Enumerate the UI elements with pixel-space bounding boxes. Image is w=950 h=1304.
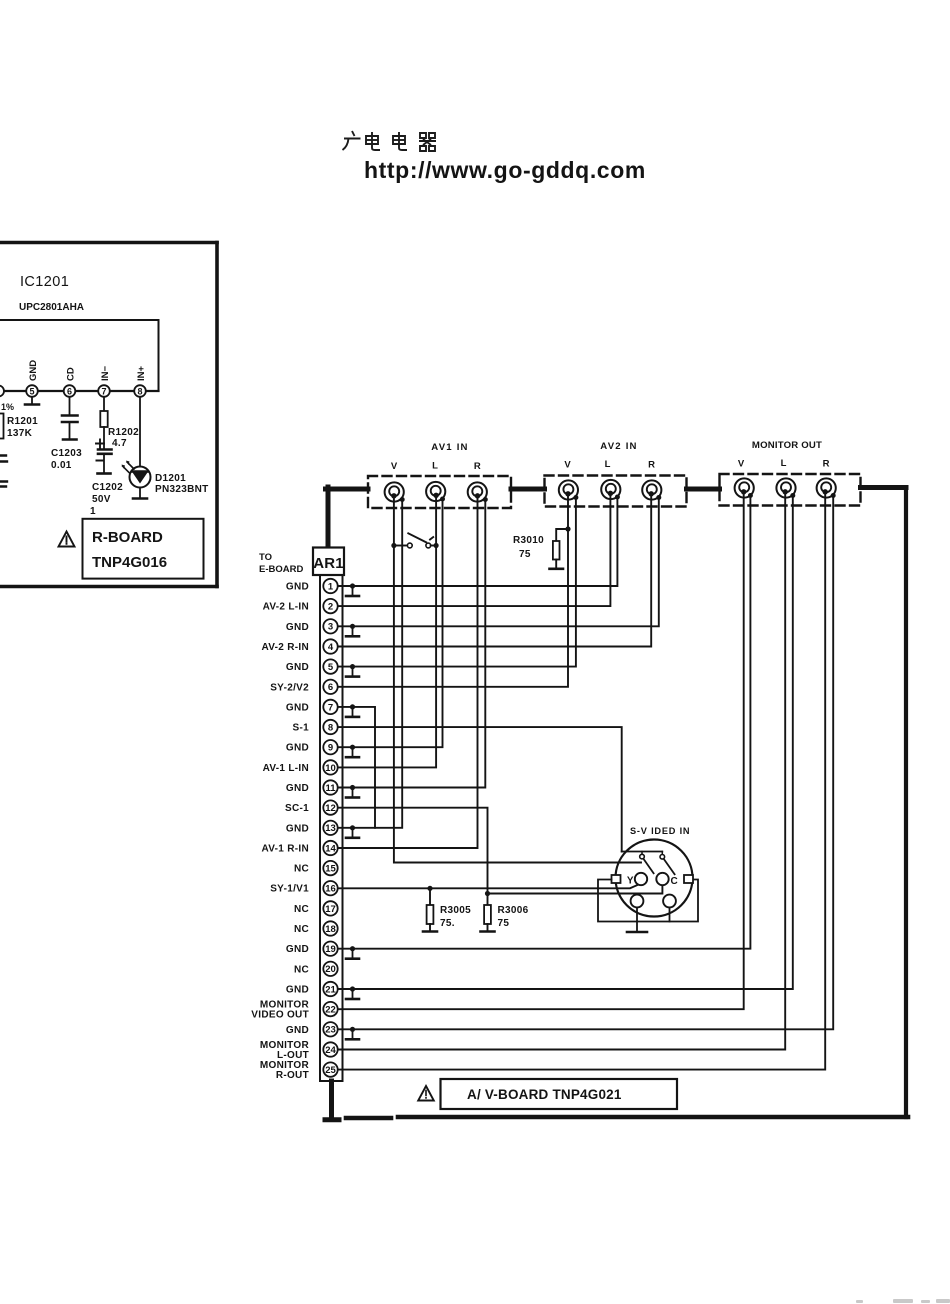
wire pin13 GND to AV1-V shield — [338, 500, 403, 828]
svg-text:V: V — [564, 460, 571, 471]
R-BOARD name box — [83, 519, 204, 579]
RCA jack MONITOR V — [735, 478, 754, 498]
thick left bottom drop from connector — [325, 1081, 339, 1120]
pin 5 — [26, 385, 38, 397]
S-video pin C — [656, 873, 668, 885]
svg-text:75: 75 — [498, 918, 510, 929]
wire pin22 MONITOR VIDEO OUT to MON-V center — [338, 492, 744, 1009]
svg-text:D1201: D1201 — [155, 473, 186, 484]
pin 19 — [323, 942, 337, 956]
wire pin19 GND to MON-V shield — [338, 496, 751, 949]
svg-text:TNP4G016: TNP4G016 — [92, 554, 167, 571]
ground (pin 21) — [346, 986, 359, 999]
thick bus MONITOR to right border — [861, 485, 907, 490]
svg-text:GND: GND — [286, 743, 309, 754]
svg-text:AV-1 L-IN: AV-1 L-IN — [263, 763, 309, 774]
svg-text:GND: GND — [286, 622, 309, 633]
svg-text:NC: NC — [294, 924, 309, 935]
svg-text:SY-2/V2: SY-2/V2 — [270, 682, 309, 693]
ground (pin 5) — [25, 403, 39, 406]
svg-text:1%: 1% — [1, 402, 14, 412]
pin 14 — [323, 841, 337, 855]
wire pin6 SY-2/V2 to AV2-V center — [338, 494, 569, 687]
svg-text:S-V IDED IN: S-V IDED IN — [630, 826, 690, 836]
IC pin bus line — [0, 390, 159, 392]
svg-text:2: 2 — [328, 602, 333, 613]
svg-text:14: 14 — [325, 843, 336, 854]
pin 6 — [64, 385, 76, 397]
MONITOR dashed connector box — [720, 474, 861, 506]
ground (pin 13) — [346, 825, 359, 838]
svg-text:AV-2 R-IN: AV-2 R-IN — [261, 642, 309, 653]
pin 23 — [323, 1022, 337, 1036]
svg-text:AR1: AR1 — [313, 555, 344, 572]
bottom border dash segment — [346, 1116, 391, 1121]
thick left drop to AR1 — [326, 487, 331, 546]
svg-text:6: 6 — [67, 387, 72, 397]
wire pin8 S-1 to S-video switch — [338, 727, 622, 851]
svg-text:Y: Y — [627, 876, 634, 887]
svg-text:4.7: 4.7 — [112, 438, 127, 449]
wire pin24 MONITOR L-OUT to MON-L center — [338, 492, 786, 1050]
RCA jack AV1 V — [385, 482, 405, 502]
svg-text:21: 21 — [325, 984, 336, 995]
wire pin1 GND to AV2-L shield — [338, 497, 618, 586]
svg-text:GND: GND — [286, 783, 309, 794]
wire pin6 down — [69, 397, 71, 415]
pin 22 — [323, 1002, 337, 1016]
wire D1201 to ground — [139, 488, 141, 499]
svg-text:AV2 IN: AV2 IN — [600, 441, 637, 452]
wire pin5 to ground — [31, 397, 33, 404]
svg-text:GND: GND — [286, 823, 309, 834]
svg-text:NC: NC — [294, 904, 309, 915]
svg-text:http://www.go-gddq.com: http://www.go-gddq.com — [364, 157, 646, 183]
svg-text:SY-1/V1: SY-1/V1 — [270, 884, 309, 895]
svg-text:IN+: IN+ — [136, 366, 147, 382]
S-video ground pin right — [663, 895, 676, 908]
svg-text:A/ V-BOARD TNP4G021: A/ V-BOARD TNP4G021 — [467, 1087, 622, 1102]
AV1 dashed connector box — [368, 476, 511, 508]
svg-text:20: 20 — [325, 964, 336, 975]
ground (pin 19) — [346, 946, 359, 959]
pin 3 — [323, 619, 337, 633]
svg-text:16: 16 — [325, 884, 336, 895]
ground (D1201) — [133, 497, 147, 500]
svg-text:5: 5 — [29, 387, 34, 397]
pin 8 — [323, 720, 337, 734]
pin 25 — [323, 1062, 337, 1076]
svg-text:R3005: R3005 — [440, 905, 471, 916]
wire R1202 to C1202 — [103, 427, 105, 449]
resistor R1202 — [100, 411, 107, 427]
svg-text:AV-1 R-IN: AV-1 R-IN — [261, 844, 309, 855]
wire pin21 GND to MON-L shield — [338, 496, 793, 990]
svg-text:NC: NC — [294, 964, 309, 975]
svg-text:E-BOARD: E-BOARD — [259, 564, 303, 575]
ground (pin 3) — [346, 624, 359, 637]
svg-text:R3010: R3010 — [513, 535, 544, 546]
ground (pin 1) — [346, 583, 359, 596]
pin 9 — [323, 740, 337, 754]
pin 20 — [323, 962, 337, 976]
svg-text:C: C — [671, 876, 678, 887]
pin 4 (partial at edge) — [0, 386, 4, 397]
svg-text:IC1201: IC1201 — [20, 274, 69, 290]
svg-text:5: 5 — [328, 662, 334, 673]
svg-text:SC-1: SC-1 — [285, 803, 309, 814]
pin 15 — [323, 861, 337, 875]
resistor R3010 — [550, 526, 571, 568]
wire pin25 MONITOR R-OUT to MON-R center — [338, 492, 826, 1070]
svg-text:GND: GND — [286, 985, 309, 996]
svg-text:GND: GND — [286, 944, 309, 955]
svg-text:UPC2801AHA: UPC2801AHA — [19, 302, 84, 313]
wire pin3 GND to AV2-R shield — [338, 498, 659, 627]
S-video ground pin left — [631, 895, 644, 908]
svg-text:V: V — [738, 459, 745, 470]
svg-text:4: 4 — [328, 642, 334, 653]
pin 4 — [323, 639, 337, 653]
capacitor C1203 — [62, 416, 78, 440]
svg-text:R1201: R1201 — [7, 416, 38, 427]
ground (S-video) — [627, 931, 647, 934]
svg-text:R1202: R1202 — [108, 427, 139, 438]
svg-text:R: R — [648, 460, 655, 471]
svg-text:MONITOR OUT: MONITOR OUT — [752, 440, 822, 451]
RCA jack AV1 R — [468, 482, 488, 502]
svg-text:IN−: IN− — [100, 366, 111, 382]
svg-text:23: 23 — [325, 1025, 336, 1036]
resistor R3006 — [481, 891, 495, 932]
svg-text:C1203: C1203 — [51, 448, 82, 459]
thick ground bus top left — [326, 487, 369, 492]
svg-text:R3006: R3006 — [498, 905, 529, 916]
warning triangle (R-board) — [59, 532, 75, 547]
ground (pin 5) — [346, 664, 359, 677]
wire pin8 down — [139, 397, 141, 467]
svg-text:17: 17 — [325, 904, 336, 915]
thick right border wire — [904, 488, 908, 1118]
器 — [419, 133, 436, 151]
svg-text:GND: GND — [286, 582, 309, 593]
ground (pin 9) — [346, 745, 359, 758]
svg-text:AV-2 L-IN: AV-2 L-IN — [263, 602, 309, 613]
svg-text:15: 15 — [325, 864, 336, 875]
wire pin7 down — [103, 397, 105, 411]
S-video shield tab right — [684, 875, 693, 883]
svg-text:75: 75 — [519, 549, 531, 560]
svg-text:TO: TO — [259, 552, 272, 563]
RCA jack AV2 L — [601, 480, 620, 500]
svg-text:3: 3 — [328, 622, 333, 633]
AV2 dashed connector box — [545, 476, 687, 507]
svg-text:7: 7 — [101, 387, 106, 397]
ground (pin 23) — [346, 1027, 359, 1040]
wire pin5 GND to AV2-V shield — [338, 498, 576, 667]
resistor R1201 (partial at edge) — [0, 414, 4, 439]
svg-text:L: L — [781, 458, 787, 469]
capacitor C1202 (electrolytic) — [96, 440, 112, 474]
svg-text:1: 1 — [328, 581, 334, 592]
RCA jack AV2 R — [642, 480, 661, 500]
pin 7 — [98, 385, 110, 397]
svg-text:V: V — [391, 461, 398, 472]
svg-text:GND: GND — [286, 1025, 309, 1036]
svg-text:CD: CD — [66, 367, 77, 381]
ground (pin 7) — [346, 704, 359, 717]
svg-text:8: 8 — [328, 722, 333, 733]
photodiode D1201 — [122, 461, 151, 488]
pin 2 — [323, 599, 337, 613]
pin 17 — [323, 901, 337, 915]
faint page-edge print artifact bottom right — [856, 1299, 950, 1303]
thick bus AV2 to MONITOR — [687, 487, 720, 492]
wire pin14 AV-1 R-IN to AV1-R center — [338, 496, 478, 848]
svg-text:GND: GND — [286, 702, 309, 713]
S-video pin Y — [635, 873, 647, 885]
svg-text:NC: NC — [294, 864, 309, 875]
svg-text:L: L — [605, 459, 611, 470]
partial capacitor stubs at left edge — [0, 456, 7, 462]
op-amp IC1201 body outline — [0, 320, 159, 391]
svg-text:0.01: 0.01 — [51, 460, 72, 471]
warning triangle (A/V board) — [418, 1086, 434, 1101]
pin 16 — [323, 881, 337, 895]
svg-text:22: 22 — [325, 1005, 336, 1016]
logo text 广电电器 (drawn glyphs) — [343, 131, 437, 151]
R-board outer border box — [0, 243, 217, 587]
wire pin16 SY-1/V1 to S-video Y pin — [338, 884, 640, 888]
wire pin2 AV-2 L-IN to AV2-L center — [338, 493, 611, 606]
svg-text:R-BOARD: R-BOARD — [92, 529, 163, 546]
S-video shield tab left — [612, 875, 621, 883]
pin 24 — [323, 1042, 337, 1056]
ground (pin 11) — [346, 785, 359, 798]
pin 10 — [323, 760, 337, 774]
resistor R3005 — [423, 886, 437, 932]
svg-text:VIDEO OUT: VIDEO OUT — [251, 1010, 309, 1021]
svg-text:6: 6 — [328, 682, 333, 693]
svg-text:GND: GND — [28, 360, 39, 381]
svg-text:13: 13 — [325, 823, 336, 834]
pin 6 — [323, 680, 337, 694]
wire AV1-V center down to S-video switch — [394, 496, 641, 863]
connector AR1 body column — [320, 575, 343, 1081]
svg-text:L: L — [432, 461, 438, 472]
svg-text:R-OUT: R-OUT — [276, 1070, 309, 1081]
svg-text:R: R — [474, 461, 481, 472]
pin 7 — [323, 700, 337, 714]
svg-text:19: 19 — [325, 944, 336, 955]
pin 1 — [323, 579, 337, 593]
RCA jack AV2 V — [559, 480, 579, 500]
S-video switch lever 1 — [644, 859, 654, 873]
pin 13 — [323, 821, 337, 835]
svg-text:AV1 IN: AV1 IN — [431, 442, 468, 453]
thick bottom border wire — [398, 1115, 908, 1120]
wire pin4 AV-2 R-IN to AV2-R center — [338, 494, 652, 647]
svg-text:18: 18 — [325, 924, 336, 935]
svg-text:137K: 137K — [7, 428, 33, 439]
S-video switch contact 2 — [660, 852, 665, 860]
广 — [343, 131, 361, 150]
RCA jack MONITOR L — [776, 478, 795, 498]
svg-text:7: 7 — [328, 702, 333, 713]
connector AR1 label box — [313, 548, 344, 576]
wire pin12 SC-1 to S-video C pin — [338, 808, 663, 894]
pin 18 — [323, 921, 337, 935]
pin 12 — [323, 800, 337, 814]
svg-text:50V: 50V — [92, 494, 111, 505]
pin 5 — [323, 659, 337, 673]
RCA jack MONITOR R — [817, 478, 836, 498]
pin 11 — [323, 780, 337, 794]
wire S-video shield loop — [598, 880, 698, 922]
svg-text:9: 9 — [328, 743, 333, 754]
pin 8 — [134, 385, 146, 397]
switch S (AV1 V to L line) — [391, 533, 438, 548]
svg-text:12: 12 — [325, 803, 336, 814]
wire pin7 GND down to pin13 line — [338, 707, 376, 828]
svg-text:PN323BNT: PN323BNT — [155, 484, 209, 495]
wire S-video ground pin right to loop — [669, 907, 671, 921]
thick bus AV1 to AV2 — [511, 487, 545, 492]
svg-text:GND: GND — [286, 662, 309, 673]
svg-text:1: 1 — [90, 506, 96, 517]
wire pin10 AV-1 L-IN to AV1-L center — [338, 495, 437, 767]
S-VIDEO IN connector — [616, 840, 693, 917]
wire pin11 GND to AV1-R shield — [338, 500, 486, 788]
RCA jack AV1 L — [426, 482, 445, 502]
svg-text:24: 24 — [325, 1045, 336, 1056]
电 — [366, 132, 380, 150]
svg-text:S-1: S-1 — [293, 723, 310, 734]
svg-text:8: 8 — [137, 387, 142, 397]
wire pin23 GND to MON-R shield — [338, 496, 834, 1030]
svg-text:25: 25 — [325, 1065, 336, 1076]
pin 21 — [323, 982, 337, 996]
S-video detect switch bar — [622, 851, 663, 853]
svg-text:10: 10 — [325, 763, 336, 774]
A/V board name box — [441, 1079, 678, 1109]
S-video switch contact 1 — [640, 852, 645, 859]
svg-text:R: R — [823, 459, 830, 470]
svg-text:11: 11 — [325, 783, 336, 794]
svg-text:75.: 75. — [440, 918, 455, 929]
wire S-video ground pin left to ground — [636, 907, 638, 931]
S-video switch lever 2 — [664, 859, 675, 874]
svg-text:C1202: C1202 — [92, 482, 123, 493]
电 — [393, 132, 407, 150]
wire pin9 GND to AV1-L shield — [338, 499, 443, 747]
